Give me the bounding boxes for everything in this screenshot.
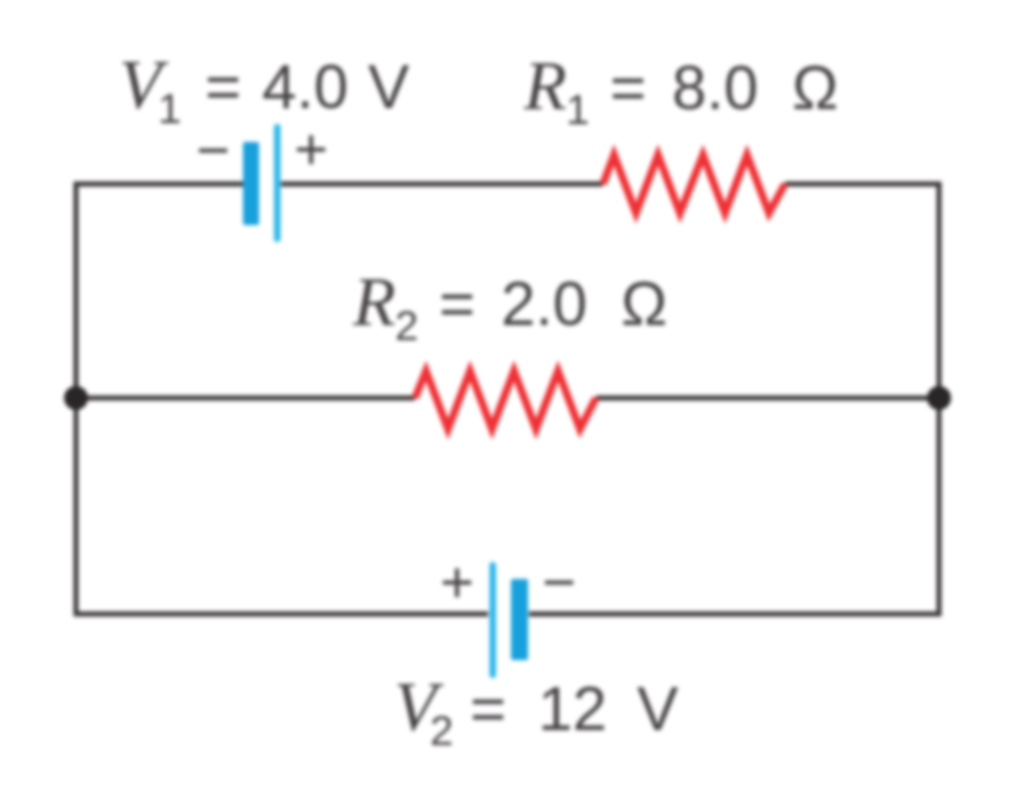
svg-text:R: R (352, 264, 396, 341)
svg-text:−: − (196, 118, 230, 183)
svg-text:V: V (637, 675, 679, 744)
svg-text:R: R (523, 48, 567, 125)
svg-text:V: V (368, 53, 410, 122)
svg-text:+: + (294, 117, 328, 182)
svg-text:=: = (205, 53, 241, 122)
svg-text:8.0: 8.0 (672, 54, 758, 123)
svg-text:1: 1 (158, 85, 181, 132)
svg-text:12: 12 (538, 675, 607, 744)
svg-text:=: = (610, 54, 646, 123)
svg-text:2: 2 (395, 302, 418, 349)
svg-text:−: − (542, 550, 576, 615)
svg-text:4.0: 4.0 (262, 53, 348, 122)
svg-text:2: 2 (430, 707, 453, 754)
svg-text:+: + (440, 550, 474, 615)
svg-text:2.0: 2.0 (501, 270, 587, 339)
svg-text:Ω: Ω (621, 270, 667, 339)
svg-text:=: = (439, 270, 475, 339)
svg-text:1: 1 (566, 86, 589, 133)
svg-text:Ω: Ω (792, 54, 838, 123)
svg-text:=: = (470, 675, 506, 744)
